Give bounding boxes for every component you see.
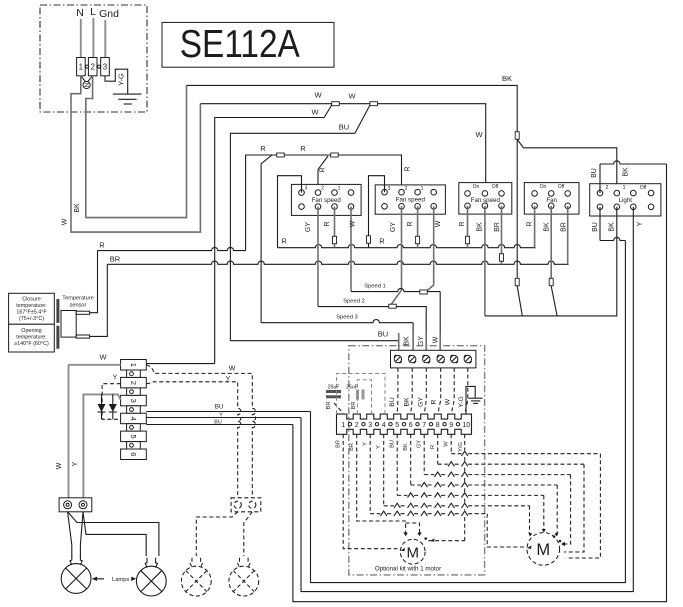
svg-text:BK: BK <box>404 336 411 346</box>
svg-text:R: R <box>379 237 385 246</box>
wire BK box4 to rail <box>550 206 552 278</box>
switch box Light <box>590 184 661 216</box>
switch box Fan speed 1 <box>291 184 361 215</box>
wire Y strip right <box>146 417 301 419</box>
svg-text:W: W <box>433 336 440 343</box>
wire Speed3 <box>261 320 413 323</box>
wire box2 t1 up and to R bus <box>369 176 385 248</box>
svg-text:BK: BK <box>403 397 410 407</box>
wire R tap to box1 <box>318 156 328 193</box>
svg-text:Fan speed: Fan speed <box>471 197 501 204</box>
svg-text:GY: GY <box>305 222 312 232</box>
dashed wire block terminal 6 to strip <box>465 368 468 414</box>
block screw terminal 6 <box>464 355 471 362</box>
wire Y-G to ground <box>105 69 128 94</box>
svg-text:2: 2 <box>405 186 408 192</box>
connector conn2 on W bus <box>370 102 378 106</box>
dashed lamp 3 <box>196 512 237 556</box>
wire BK rail <box>485 207 617 316</box>
svg-text:Y-G: Y-G <box>117 73 126 86</box>
svg-text:GY: GY <box>418 336 425 346</box>
svg-text:W: W <box>311 108 319 117</box>
svg-text:R: R <box>320 167 327 172</box>
svg-text:2: 2 <box>355 422 359 429</box>
switch box Fan speed 3 <box>459 183 512 215</box>
ground symbol <box>113 94 142 104</box>
svg-text:6: 6 <box>409 422 413 429</box>
svg-text:Closure: Closure <box>22 297 41 303</box>
wire W box2 to speed1 connector <box>426 206 434 292</box>
svg-text:Off: Off <box>640 185 647 191</box>
svg-text:BU: BU <box>592 222 599 232</box>
svg-text:W: W <box>56 462 63 469</box>
svg-text:GY: GY <box>390 222 397 232</box>
wire BR box4 to BR bus <box>567 206 569 264</box>
wire Gnd drop <box>104 20 106 58</box>
connector conn1 on W bus <box>332 102 340 106</box>
ground symbol at block <box>466 386 483 414</box>
wire W box1 to speed1 <box>350 207 352 292</box>
lamp terminal strip 1-6 <box>0 0 1 1</box>
svg-text:4: 4 <box>382 422 386 429</box>
dashed wire strip t7 toward motor 2 <box>424 434 570 474</box>
svg-text:BU: BU <box>339 123 349 132</box>
wire BK live down to rail <box>516 140 518 278</box>
svg-text:Off: Off <box>492 184 499 190</box>
svg-text:R: R <box>405 166 412 171</box>
wire BR box3 to BR bus <box>501 206 503 264</box>
dashed wire strip t6 toward motor 2 <box>411 434 558 485</box>
svg-text:R: R <box>324 221 331 226</box>
svg-text:3: 3 <box>129 399 138 403</box>
wire BK box3 to rail <box>484 206 486 316</box>
svg-text:N: N <box>84 83 91 87</box>
svg-text:1: 1 <box>129 363 138 367</box>
wire BK top bus <box>187 85 518 131</box>
svg-text:W: W <box>62 218 69 225</box>
svg-text:Gnd: Gnd <box>99 8 119 20</box>
dashed wire strip t2 to motor 1 <box>357 434 420 532</box>
svg-text:W: W <box>435 220 442 227</box>
svg-text:Y: Y <box>226 376 231 383</box>
svg-text:Speed 1: Speed 1 <box>364 284 386 290</box>
dashed lamp 4 <box>229 558 259 596</box>
svg-text:BR: BR <box>110 255 121 264</box>
svg-text:temperature:: temperature: <box>16 303 47 309</box>
dashed Y optional <box>102 384 121 420</box>
wire R box1 to R bus <box>334 207 336 248</box>
svg-text:W: W <box>475 130 483 139</box>
svg-text:6: 6 <box>129 452 138 456</box>
svg-text:Y: Y <box>113 375 118 382</box>
wire R from sensor <box>90 251 98 313</box>
svg-text:BK: BK <box>74 203 81 213</box>
svg-text:GY: GY <box>417 397 424 407</box>
motor M1 <box>400 539 425 564</box>
capacitor 25uF solid <box>326 385 343 414</box>
svg-text:1: 1 <box>341 422 345 429</box>
svg-text:3: 3 <box>305 186 308 192</box>
dashed wire block terminal 1 to strip <box>396 368 399 414</box>
grey wire stubs into block <box>399 333 441 356</box>
svg-text:Optional kit with 1 motor: Optional kit with 1 motor <box>375 566 441 573</box>
wire Speed1 <box>351 288 440 291</box>
svg-text:R: R <box>99 241 105 250</box>
wire BK from terminal 2 <box>86 76 187 218</box>
svg-text:BK: BK <box>609 222 616 232</box>
svg-text:BK: BK <box>477 222 484 232</box>
svg-text:BU: BU <box>389 397 396 407</box>
svg-text:BK: BK <box>403 443 409 451</box>
dashed wire block terminal 4 to strip <box>438 368 441 414</box>
block screw terminal 2 <box>409 355 416 362</box>
dashed wire block terminal 3 to strip <box>424 368 426 414</box>
lamp connector box <box>59 498 92 512</box>
svg-text:W: W <box>314 91 322 100</box>
svg-text:2: 2 <box>606 185 609 191</box>
svg-text:9: 9 <box>449 422 453 429</box>
optional kit dash-dot box <box>349 346 485 575</box>
svg-text:GY: GY <box>417 440 423 448</box>
connector on BK <box>515 132 519 140</box>
svg-text:Light: Light <box>619 197 633 204</box>
svg-text:Off: Off <box>558 184 565 190</box>
wire BR bus <box>107 261 568 264</box>
svg-text:M: M <box>536 541 550 559</box>
svg-text:8: 8 <box>436 422 440 429</box>
svg-text:BR: BR <box>561 222 568 232</box>
svg-text:Y/G: Y/G <box>458 442 464 452</box>
dashed lamp connector <box>231 498 261 512</box>
svg-text:BR: BR <box>336 440 342 448</box>
block screw terminal 3 <box>423 355 430 362</box>
wire BR from sensor <box>90 264 108 336</box>
svg-text:3: 3 <box>103 63 108 72</box>
svg-text:4: 4 <box>129 416 138 420</box>
svg-text:R: R <box>281 237 287 246</box>
wire Speed2 <box>318 307 426 357</box>
svg-text:1: 1 <box>623 185 626 191</box>
svg-text:Fan speed: Fan speed <box>396 196 426 203</box>
svg-text:W: W <box>444 398 451 405</box>
svg-text:W: W <box>229 366 236 373</box>
svg-text:≥140°F (60°C): ≥140°F (60°C) <box>14 341 49 347</box>
wire R tap to speed3 vertical <box>261 155 272 164</box>
svg-text:N: N <box>76 7 84 19</box>
dashed wire strip t4 toward motor 2 <box>384 434 530 506</box>
block screw terminal 5 <box>451 355 458 362</box>
lamp 1 <box>61 555 91 593</box>
diode 2 <box>109 394 117 419</box>
dashed wire strip t8 toward motor 2 <box>438 434 584 464</box>
wire R box4 to R bus <box>534 206 536 248</box>
block screw terminal 4 <box>437 355 444 362</box>
wire BU nest <box>355 105 370 133</box>
svg-text:BR: BR <box>349 443 355 451</box>
svg-text:W: W <box>444 441 450 447</box>
motor M2 <box>527 533 560 566</box>
svg-text:BU: BU <box>378 330 388 339</box>
dashed W optional from strip <box>146 365 255 498</box>
wire R line to switches <box>246 155 402 251</box>
svg-text:Lamps: Lamps <box>112 577 130 583</box>
svg-text:Fan speed: Fan speed <box>312 197 342 204</box>
wire BU light feed up and right <box>600 161 667 164</box>
svg-text:(75+/-3°C): (75+/-3°C) <box>19 316 44 322</box>
switch box Fan <box>524 183 579 215</box>
svg-text:Fan: Fan <box>546 197 557 204</box>
svg-text:temperature:: temperature: <box>16 335 47 341</box>
dashed wire strip t10 to motor 1 right <box>429 540 465 542</box>
svg-text:BR: BR <box>326 401 332 409</box>
lamp wires <box>68 512 72 556</box>
dashed wire strip t5 toward motor 2 <box>397 434 544 495</box>
svg-text:On: On <box>473 184 480 190</box>
wire L drop <box>92 18 94 58</box>
svg-text:M: M <box>406 545 419 562</box>
connector on R line <box>277 153 285 157</box>
wire W from terminal 1 <box>71 76 200 232</box>
wire GY box1 to speed2 <box>317 207 319 307</box>
wire R bus left <box>98 247 246 250</box>
wire BU strip right <box>146 411 310 413</box>
svg-text:BU: BU <box>215 404 224 411</box>
twisted pair marker circle N <box>81 76 93 89</box>
svg-text:W: W <box>348 92 356 101</box>
wire W down to lamp connector <box>68 365 70 500</box>
svg-text:R: R <box>527 221 534 226</box>
svg-text:BR: BR <box>351 401 357 409</box>
svg-text:3: 3 <box>368 422 372 429</box>
dashed wire block terminal 5 to strip <box>451 368 454 414</box>
svg-text:2: 2 <box>90 63 95 72</box>
dashed wire block terminal 2 to strip <box>411 368 413 414</box>
temperature text box <box>9 293 55 352</box>
svg-text:Y: Y <box>637 221 644 226</box>
svg-text:Y: Y <box>72 461 79 466</box>
wire BK to Light switch <box>517 140 617 194</box>
svg-text:Y-G: Y-G <box>458 396 465 407</box>
svg-text:Speed 2: Speed 2 <box>343 299 365 305</box>
dashed wire strip t9 toward motor 2 <box>451 434 600 453</box>
lamp 2 <box>136 558 166 596</box>
dashed wire strip t1 to motor 1 <box>343 434 397 548</box>
svg-text:BR: BR <box>494 222 501 232</box>
wire R box3 to R bus <box>467 206 469 248</box>
svg-text:1: 1 <box>79 63 84 72</box>
wire R box2 to R bus <box>417 206 419 247</box>
wire box1 t1 up <box>278 176 302 248</box>
svg-text:On: On <box>540 184 547 190</box>
svg-text:10: 10 <box>462 422 470 429</box>
svg-text:W: W <box>350 220 357 227</box>
wire W3 nest (to lamp strip) <box>324 105 332 118</box>
block screw terminal 1 <box>394 355 401 362</box>
svg-text:2: 2 <box>129 381 138 385</box>
wire BU light out <box>599 207 601 241</box>
wire BU strip right 2 <box>146 424 293 426</box>
svg-text:R: R <box>260 144 266 153</box>
svg-text:Y: Y <box>219 413 223 419</box>
svg-text:2: 2 <box>321 186 324 192</box>
dashed right verticals to motor 2 <box>487 514 525 547</box>
capacitor 25uF dashed optional <box>346 385 364 410</box>
dashed rect around capacitors <box>337 374 386 415</box>
dashed column t10 down to motor1 <box>464 434 466 540</box>
svg-text:Opening: Opening <box>21 328 41 334</box>
svg-text:BK: BK <box>544 222 551 232</box>
svg-text:BK: BK <box>623 167 630 177</box>
terminal strip 1-10 <box>337 414 472 434</box>
svg-text:Temperature: Temperature <box>62 296 93 302</box>
dashed Y optional right <box>146 382 241 498</box>
svg-text:5: 5 <box>129 434 138 438</box>
power supply dash-dot box <box>40 5 147 112</box>
svg-text:L: L <box>90 6 96 18</box>
dashed wire strip t3 toward motor 2 <box>370 434 487 513</box>
wire W top bus <box>200 104 485 194</box>
svg-text:1: 1 <box>421 186 424 192</box>
svg-text:Speed 3: Speed 3 <box>336 315 358 321</box>
arrows into motor 1 <box>401 548 406 551</box>
svg-text:7: 7 <box>422 422 426 429</box>
svg-text:R: R <box>459 221 466 226</box>
svg-text:1: 1 <box>338 186 341 192</box>
svg-text:BU: BU <box>390 440 396 448</box>
svg-text:BU: BU <box>591 168 598 178</box>
wire Y strip to lamp connector <box>83 394 120 500</box>
svg-text:BU: BU <box>214 419 222 425</box>
svg-text:25uF: 25uF <box>328 385 340 391</box>
svg-text:R: R <box>300 144 306 153</box>
wire Y light out <box>301 207 633 592</box>
svg-text:R: R <box>430 399 437 404</box>
connector block 6 terminals <box>391 350 476 368</box>
svg-text:R: R <box>430 445 436 449</box>
wire W to lamp strip <box>69 364 121 366</box>
wire N drop <box>80 19 82 58</box>
switch box Fan speed 2 <box>375 185 445 214</box>
svg-text:R: R <box>407 221 414 226</box>
svg-text:BK: BK <box>502 74 512 83</box>
svg-text:Y: Y <box>363 442 369 446</box>
svg-text:3: 3 <box>388 186 391 192</box>
diode 1 <box>98 394 106 419</box>
title box SE112A <box>162 22 334 67</box>
svg-text:25uF: 25uF <box>346 385 358 391</box>
svg-text:5: 5 <box>395 422 399 429</box>
wire R bus right <box>278 244 536 247</box>
svg-text:sensor: sensor <box>70 303 87 309</box>
svg-text:W: W <box>99 353 107 362</box>
terminal block 1 2 3 <box>77 58 110 76</box>
temperature sensor symbol <box>56 299 89 349</box>
svg-text:Y: Y <box>376 445 382 449</box>
wire BU line to block <box>230 341 398 357</box>
wire GY box2 to speed2 connector <box>390 206 401 305</box>
svg-text:SE112A: SE112A <box>180 23 300 66</box>
connector on R line 2 <box>331 153 339 157</box>
svg-text:167°F±5.4°F: 167°F±5.4°F <box>16 310 47 316</box>
